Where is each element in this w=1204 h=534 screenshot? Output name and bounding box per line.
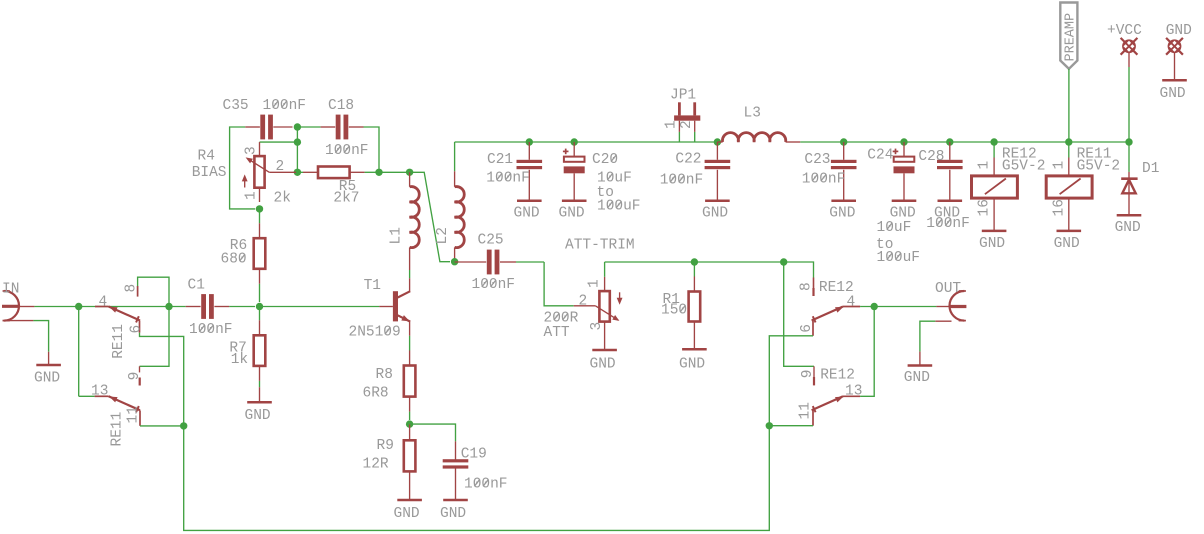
svg-text:6R8: 6R8: [363, 385, 389, 401]
svg-text:PREAMP: PREAMP: [1064, 13, 1079, 62]
svg-text:8: 8: [799, 282, 815, 291]
node C20 junction: [571, 138, 578, 145]
svg-text:R8: R8: [376, 367, 393, 383]
wire IN shield to ground: [3, 320, 34, 322]
wire ATT rail: [604, 262, 606, 277]
capacitor C22 100nF: [716, 142, 718, 160]
node C1 input junction: [165, 303, 172, 310]
net flag PREAMP: [1060, 3, 1077, 69]
ground C19: [443, 499, 468, 502]
svg-text:1: 1: [664, 120, 680, 129]
resistor R1 150: [693, 262, 695, 277]
resistor R6 680: [259, 209, 261, 223]
power pin +VCC: [1121, 38, 1138, 55]
svg-text:C20: C20: [592, 152, 618, 168]
svg-text:2: 2: [679, 120, 695, 129]
ground C22: [705, 200, 730, 203]
ground ATT: [592, 349, 617, 352]
node L2 bottom junction: [451, 258, 458, 265]
svg-text:13: 13: [845, 384, 862, 400]
relay contact RE11 upper pole pin 4: [95, 306, 109, 308]
relay contact RE11 pin 11 stub: [139, 410, 141, 425]
svg-text:L1: L1: [389, 227, 405, 244]
svg-text:GND: GND: [1160, 86, 1186, 102]
wire VCC rail right: [800, 141, 1129, 143]
svg-text:100uF: 100uF: [597, 198, 641, 214]
svg-text:IN: IN: [2, 282, 19, 298]
wire pin8 loop to C1 node: [138, 277, 169, 306]
node R5 output junction: [375, 169, 382, 176]
node L1 top junction: [406, 169, 413, 176]
svg-text:2k: 2k: [274, 191, 291, 207]
svg-text:C19: C19: [461, 447, 487, 463]
svg-text:ATT-TRIM: ATT-TRIM: [565, 238, 635, 254]
relay contact RE12 lower pole pin 13: [843, 395, 860, 397]
wire rail to RE12 pin 9: [784, 262, 814, 366]
svg-text:C24: C24: [867, 148, 893, 164]
svg-text:9: 9: [800, 370, 816, 379]
node RE12 coil junction: [990, 138, 997, 145]
relay contact RE11 pin 6 stub: [139, 321, 141, 333]
ground R1: [682, 348, 707, 351]
node right bottom bus junction: [766, 422, 773, 429]
wire junction to L1 node: [379, 171, 410, 173]
potentiometer ATT 200R: [574, 305, 596, 307]
capacitor C35: [245, 126, 260, 128]
wire VCC rail left: [455, 141, 718, 143]
svg-text:100nF: 100nF: [263, 98, 307, 114]
svg-text:100uF: 100uF: [877, 250, 921, 266]
svg-text:C18: C18: [328, 98, 354, 114]
svg-text:R9: R9: [377, 438, 394, 454]
inductor L2: [454, 142, 456, 171]
relay coil RE11 G5V-2: [1068, 142, 1070, 158]
capacitor C21 100nF: [528, 142, 530, 160]
svg-text:GND: GND: [34, 371, 60, 387]
capacitor C20 polarized: [573, 142, 575, 157]
svg-text:11: 11: [126, 406, 142, 423]
svg-text:C23: C23: [804, 152, 830, 168]
diode D1: [1128, 142, 1130, 172]
svg-text:GND: GND: [394, 506, 420, 522]
svg-text:100nF: 100nF: [926, 216, 970, 232]
capacitor C19 100nF: [455, 441, 457, 460]
svg-text:GND: GND: [679, 356, 705, 372]
svg-text:JP1: JP1: [670, 88, 696, 104]
node C24 junction: [900, 138, 907, 145]
svg-text:GND: GND: [440, 506, 466, 522]
capacitor C23 100nF: [843, 142, 845, 160]
svg-text:GND: GND: [829, 206, 855, 222]
wire bottom bus U: [184, 426, 770, 531]
wire IN node to pin 13: [79, 395, 95, 397]
node C23 junction: [840, 138, 847, 145]
capacitor C1 100nF: [169, 306, 186, 308]
node R1 junction: [691, 258, 698, 265]
svg-text:C28: C28: [918, 149, 944, 165]
power pin GND top: [1166, 38, 1183, 55]
svg-text:2: 2: [579, 294, 588, 310]
svg-text:BIAS: BIAS: [192, 165, 227, 181]
wire C1 node down to RE11 pin 9: [140, 307, 170, 367]
ground C21: [517, 200, 542, 203]
relay contact RE11 pin 8 stub: [137, 286, 139, 297]
wire junction to lower node: [296, 127, 298, 142]
node IN junction: [75, 303, 82, 310]
svg-text:150: 150: [661, 302, 687, 318]
svg-text:1: 1: [1051, 161, 1067, 170]
node RE12 pin9 branch junction: [780, 258, 787, 265]
relay contact RE11 pin 9 stub: [139, 366, 141, 372]
node C28 junction: [946, 138, 953, 145]
svg-text:RE11: RE11: [111, 324, 127, 359]
svg-text:RE12: RE12: [820, 367, 855, 383]
connector IN: [4, 291, 19, 321]
resistor R7 1k: [259, 307, 261, 321]
svg-text:12R: 12R: [363, 457, 389, 473]
ground RE11 coil: [1057, 230, 1082, 233]
svg-text:L2: L2: [435, 227, 451, 244]
connector OUT: [950, 291, 965, 321]
relay contact RE12 pin 6 stub: [812, 321, 814, 336]
node left bottom bus junction: [180, 422, 187, 429]
svg-text:6: 6: [799, 324, 815, 333]
jumper JP1: [678, 102, 681, 115]
ground C20: [562, 200, 587, 203]
svg-text:3: 3: [589, 322, 605, 331]
svg-text:RE11: RE11: [110, 412, 126, 447]
svg-text:+VCC: +VCC: [1107, 23, 1142, 39]
svg-text:1: 1: [586, 279, 602, 288]
svg-text:C22: C22: [675, 152, 701, 168]
node R4 wiper junction: [294, 169, 301, 176]
svg-text:C1: C1: [188, 278, 205, 294]
svg-text:L3: L3: [744, 106, 761, 122]
wire pin6 to lower bus: [140, 333, 184, 426]
ground IN shield: [36, 364, 61, 367]
svg-text:D1: D1: [1142, 161, 1159, 177]
svg-text:G5V-2: G5V-2: [1002, 158, 1046, 174]
svg-text:GND: GND: [979, 236, 1005, 252]
wire pin 11 to bottom bus: [140, 425, 184, 427]
svg-text:3: 3: [244, 146, 260, 155]
svg-text:6: 6: [128, 325, 144, 334]
svg-text:2N5109: 2N5109: [349, 324, 401, 340]
wire OUT shield to ground: [935, 320, 951, 322]
transistor T1 2N5109: [393, 291, 398, 321]
node R8-R9 junction: [406, 420, 413, 427]
svg-text:1k: 1k: [231, 352, 248, 368]
svg-text:GND: GND: [514, 206, 540, 222]
ground C23: [831, 200, 856, 203]
relay contact RE12 pin 8 stub: [813, 278, 815, 289]
potentiometer R4 2k: [259, 142, 261, 156]
wire R8-R9 node to C19: [410, 424, 456, 441]
svg-text:100nF: 100nF: [802, 171, 846, 187]
ground C28: [938, 200, 963, 203]
wire PREAMP to RE11 coil: [1068, 69, 1070, 142]
wire T1 emitter to R8: [409, 321, 411, 335]
svg-text:9: 9: [127, 372, 143, 381]
wire pin6 to left bus: [769, 336, 813, 426]
svg-text:GND: GND: [702, 206, 728, 222]
svg-text:4: 4: [99, 294, 108, 310]
resistor R5 2k7: [297, 171, 303, 173]
svg-text:C21: C21: [487, 152, 513, 168]
svg-text:GND: GND: [1166, 23, 1192, 39]
inductor L3: [717, 141, 722, 143]
ground R9: [397, 499, 422, 502]
wire base node to T1: [260, 306, 380, 308]
svg-text:16: 16: [1051, 199, 1067, 216]
node T1 base junction: [256, 303, 263, 310]
svg-text:C35: C35: [223, 98, 249, 114]
wire R4 pin3 to junction: [260, 141, 297, 143]
svg-text:100nF: 100nF: [325, 143, 369, 159]
svg-text:13: 13: [91, 384, 108, 400]
capacitor C18: [297, 126, 320, 128]
capacitor C25 100nF: [455, 261, 487, 263]
ground RE12 coil: [982, 230, 1007, 233]
svg-text:GND: GND: [590, 356, 616, 372]
svg-text:11: 11: [798, 402, 814, 419]
wire C18 right to R5 right node: [364, 127, 380, 172]
svg-text:100nF: 100nF: [486, 170, 530, 186]
svg-text:R4: R4: [198, 149, 215, 165]
ground R7: [247, 401, 272, 404]
relay contact RE11 lower pole pin 13: [95, 395, 109, 397]
svg-text:4: 4: [847, 294, 856, 310]
svg-text:G5V-2: G5V-2: [1077, 158, 1121, 174]
svg-text:100nF: 100nF: [660, 173, 704, 189]
svg-text:OUT: OUT: [935, 281, 961, 297]
svg-text:100nF: 100nF: [189, 322, 233, 338]
svg-text:GND: GND: [1054, 236, 1080, 252]
node R4 pin3 net junction: [294, 138, 301, 145]
relay contact RE12 pin 11 stub: [812, 410, 814, 425]
svg-text:GND: GND: [1115, 220, 1141, 236]
ground GND pin: [1162, 79, 1187, 82]
svg-text:10uF: 10uF: [877, 220, 912, 236]
ground OUT shield: [908, 364, 933, 367]
wire junction vertical R4 net: [296, 142, 298, 172]
inductor L1: [409, 172, 411, 187]
node R4 pin1 junction: [256, 205, 263, 212]
wire OUT node: [860, 306, 936, 308]
svg-text:2k7: 2k7: [333, 190, 359, 206]
node C21 junction: [526, 138, 533, 145]
node VCC-D1 junction: [1125, 138, 1132, 145]
relay contact RE12 pin 9 stub: [813, 366, 815, 377]
svg-text:1: 1: [977, 161, 993, 170]
relay coil RE12 G5V-2: [993, 142, 995, 158]
svg-text:680: 680: [221, 251, 247, 267]
svg-text:200R: 200R: [544, 310, 579, 326]
svg-text:16: 16: [977, 199, 993, 216]
svg-text:ATT: ATT: [544, 325, 570, 341]
wire diagonal L1 node to L2 bottom node: [410, 172, 450, 261]
wire IN to RE11 contacts and C1: [34, 306, 169, 308]
svg-text:100nF: 100nF: [464, 477, 508, 493]
ground D1: [1117, 214, 1142, 217]
resistor R9 12R: [409, 424, 411, 440]
wire C35 left loop to R4 pin1 node: [230, 127, 256, 209]
node L3-C22 junction: [714, 138, 721, 145]
relay contact RE12 upper pole pin 4: [843, 306, 860, 308]
svg-text:100nF: 100nF: [472, 277, 516, 293]
svg-text:GND: GND: [904, 370, 930, 386]
node RE11 coil junction: [1065, 138, 1072, 145]
svg-text:GND: GND: [559, 206, 585, 222]
svg-text:2: 2: [276, 159, 285, 175]
svg-text:T1: T1: [364, 278, 381, 294]
wire pin 11 to bottom bus node: [769, 425, 813, 427]
capacitor C28 100nF: [949, 142, 951, 160]
capacitor C24 polarized: [903, 142, 905, 157]
resistor R8 6R8: [404, 366, 416, 397]
svg-text:C25: C25: [478, 233, 504, 249]
wire C25 to ATT wiper: [544, 262, 574, 306]
node C35-C18 junction: [294, 123, 301, 130]
svg-text:1: 1: [244, 191, 260, 200]
ground C24: [892, 200, 917, 203]
wire OUT node to pin 13: [860, 307, 874, 397]
node OUT junction: [871, 303, 878, 310]
svg-text:GND: GND: [245, 408, 271, 424]
wire IN node down to RE11 pin13: [78, 307, 80, 397]
